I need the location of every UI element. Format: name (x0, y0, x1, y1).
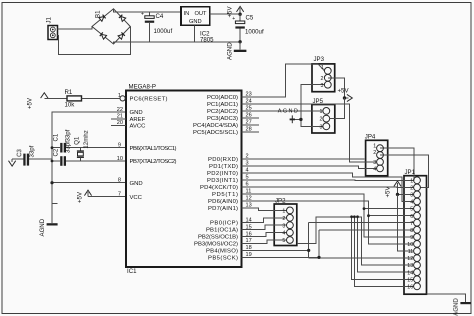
+5V supply arrow at C5 (227, 6, 244, 18)
svg-text:PC4(ADC4/SDA): PC4(ADC4/SDA) (193, 123, 238, 129)
svg-text:15: 15 (407, 277, 413, 283)
svg-text:Q1: Q1 (73, 136, 80, 145)
JP3 pins and label (314, 56, 332, 89)
svg-text:JP2: JP2 (275, 198, 286, 205)
svg-text:13: 13 (407, 263, 413, 269)
wire JP3 pin2 to +5V node (328, 78, 345, 98)
svg-text:2: 2 (373, 150, 376, 156)
wire step from JP2 right to JP1 pin14 (297, 217, 414, 265)
wire hang vertical to JP1 pin15 (352, 217, 414, 279)
svg-text:+5V: +5V (385, 186, 392, 198)
svg-text:GND: GND (189, 19, 202, 25)
junction dot rail xtal2 (51, 160, 54, 163)
svg-text:3: 3 (246, 161, 249, 167)
wire PC2 pin25 to JP5 pin1 (252, 110, 323, 112)
wire 7805 OUT to +5V / C5 (210, 13, 240, 15)
svg-text:PD2(INT0): PD2(INT0) (207, 171, 238, 177)
wire VCC pin7 (88, 196, 126, 198)
svg-text:7805: 7805 (200, 37, 214, 44)
wire PD0 pin2 to JP4 (252, 158, 364, 160)
svg-text:MEGA8-P: MEGA8-P (129, 84, 156, 91)
svg-text:AGND: AGND (453, 298, 460, 316)
svg-text:1: 1 (373, 143, 376, 149)
svg-text:33pf: 33pf (29, 145, 36, 157)
junction dot branch9 (363, 207, 366, 210)
svg-text:C2: C2 (53, 148, 60, 156)
svg-text:10k: 10k (65, 102, 76, 109)
svg-text:6: 6 (246, 182, 249, 188)
+5V supply arrow right at JP3 JP5 (338, 88, 353, 102)
diode D-botright (118, 32, 125, 39)
wire PD1 pin3 to JP4 pin4 (252, 166, 376, 169)
wire hang vertical to JP1 pin14 (358, 217, 414, 272)
wire PD7 pin13 to JP2 pin1 (252, 208, 287, 211)
svg-text:14: 14 (246, 217, 252, 223)
svg-text:AVCC: AVCC (130, 123, 147, 129)
svg-text:+: + (232, 16, 235, 22)
wire PC0 pin23 to JP3 pin1 (252, 64, 318, 97)
junction dot hang14 (356, 215, 359, 218)
wire cap C2 left to rail (52, 147, 60, 149)
wire 7805 GND down to rail (194, 25, 196, 42)
svg-text:PC5(ADC5/SCL): PC5(ADC5/SCL) (193, 130, 238, 136)
wire branch to JP1 pin10 (369, 216, 414, 244)
connector JP4 box (366, 140, 388, 176)
svg-text:1: 1 (118, 93, 121, 99)
wire J1 pin2 loop to bridge right corner (58, 27, 131, 55)
capacitor C1 (53, 129, 72, 165)
svg-text:PB2(SS/OC1B): PB2(SS/OC1B) (198, 235, 238, 241)
capacitor C4 (141, 12, 172, 42)
capacitor C5 (232, 14, 264, 42)
JP4 pins and label (365, 134, 384, 173)
AGND ground at C5 (227, 42, 247, 60)
+5V supply arrow at JP1 (385, 181, 402, 198)
svg-text:2: 2 (282, 216, 285, 222)
AGND ground bottom right (453, 298, 471, 316)
svg-text:PB0(ICP): PB0(ICP) (210, 221, 238, 227)
svg-text:PD7(AIN1): PD7(AIN1) (208, 206, 238, 212)
IC1 MEGA8-P microcontroller (126, 84, 242, 276)
svg-text:19: 19 (246, 252, 252, 258)
capacitor C2 (53, 141, 72, 157)
svg-text:2: 2 (410, 186, 413, 192)
+5V supply arrow at R1 (27, 93, 49, 109)
svg-text:PD0(RXD): PD0(RXD) (208, 157, 238, 163)
AGND arrow at C3 (9, 159, 16, 166)
wire AGND node to JP5 pin3 (301, 119, 323, 126)
wire PB1 pin15 to JP2 pin3 (252, 225, 287, 229)
connector JP5 box (312, 105, 335, 134)
pin 21 AREF stub (111, 118, 126, 120)
wire PB2 pin16 to JP2 pin4 (252, 233, 287, 237)
svg-text:PC3(ADC3): PC3(ADC3) (207, 116, 238, 122)
svg-text:C1: C1 (53, 133, 60, 141)
svg-text:2: 2 (321, 76, 324, 82)
svg-text:12mhz: 12mhz (83, 130, 90, 148)
voltage regulator IC2 7805 (181, 7, 214, 44)
svg-text:JP4: JP4 (365, 134, 376, 141)
capacitor C3 (16, 145, 35, 165)
svg-text:4: 4 (246, 168, 249, 174)
svg-text:AGND: AGND (227, 42, 234, 60)
wire pin22 GND left and down rail (52, 112, 126, 223)
IC1 left pin labels (130, 97, 177, 201)
wire bridge top (+) to 7805 IN (114, 9, 182, 12)
junction dot hang1 (350, 215, 353, 218)
svg-text:IC1: IC1 (127, 268, 137, 275)
svg-text:VCC: VCC (130, 195, 143, 201)
pin 1 reset circle (120, 96, 125, 101)
svg-text:PD1(TXD): PD1(TXD) (209, 164, 238, 170)
wire PB4 pin18 riser (252, 249, 309, 251)
svg-text:J1: J1 (46, 16, 53, 23)
svg-text:PB3(MOSI/OC2): PB3(MOSI/OC2) (194, 242, 238, 248)
svg-text:+: + (141, 12, 144, 18)
svg-text:20: 20 (117, 120, 123, 126)
svg-text:12: 12 (246, 196, 252, 202)
svg-text:1000uf: 1000uf (154, 28, 173, 35)
svg-text:PB7(XTAL2/TOSC2): PB7(XTAL2/TOSC2) (130, 159, 177, 165)
+5V supply arrow at VCC pin7 (77, 190, 92, 203)
connector JP3 box (312, 64, 335, 92)
svg-text:+5V: +5V (77, 191, 84, 203)
wire to JP1 pin8 (319, 229, 414, 231)
wire stub on GND rail (51, 202, 57, 204)
svg-text:21: 21 (117, 114, 123, 120)
junction dot pin8 rail (50, 181, 53, 184)
svg-text:PD6(AIN0): PD6(AIN0) (208, 199, 238, 205)
JP1 pins and label (405, 169, 421, 290)
svg-text:PD4(XCK/T0): PD4(XCK/T0) (200, 185, 238, 191)
wire PB5 pin19 riser (252, 256, 319, 258)
svg-text:AGND: AGND (278, 109, 298, 115)
wire PB3 pin17 to JP2 pin5 (252, 240, 287, 243)
svg-text:B1: B1 (95, 10, 102, 18)
svg-text:1: 1 (320, 109, 323, 115)
svg-text:3: 3 (320, 124, 323, 130)
svg-text:4: 4 (410, 200, 413, 206)
wire XTAL1 line pin9 (66, 147, 126, 149)
JP5 pins and label (313, 98, 330, 130)
svg-text:PC0(ADC0): PC0(ADC0) (207, 95, 238, 101)
junction dot C5 top (238, 13, 241, 16)
junction dot PB5 (317, 256, 320, 259)
svg-text:JP1: JP1 (405, 169, 416, 176)
IC1 right pin stubs (242, 97, 260, 258)
svg-text:PD5(T1): PD5(T1) (212, 192, 238, 198)
svg-text:PB1(OC1A): PB1(OC1A) (206, 228, 238, 234)
svg-text:26: 26 (246, 113, 252, 119)
svg-text:5: 5 (246, 175, 249, 181)
svg-text:7: 7 (410, 221, 413, 227)
svg-text:1: 1 (321, 65, 324, 71)
diode D-topright (119, 15, 126, 22)
svg-text:PD3(INT1): PD3(INT1) (207, 178, 238, 184)
svg-text:+5V: +5V (338, 88, 350, 95)
svg-text:10: 10 (117, 156, 123, 162)
svg-text:1000uf: 1000uf (245, 29, 264, 36)
junction dot AGND JP3 JP5 (299, 118, 302, 121)
junction dot rail xtal1 (51, 146, 54, 149)
resistor R1 (65, 89, 82, 108)
svg-text:10: 10 (407, 242, 413, 248)
svg-text:25: 25 (246, 106, 252, 112)
junction dot branch10 (367, 214, 370, 217)
connector JP1 box (404, 176, 427, 295)
svg-text:14: 14 (407, 270, 413, 276)
svg-text:33pf: 33pf (65, 129, 72, 141)
bridge rectifier B1 (92, 9, 130, 44)
svg-text:PC2(ADC2): PC2(ADC2) (207, 109, 238, 115)
svg-text:PC1(ADC1): PC1(ADC1) (207, 102, 238, 108)
wire C3 to GND rail (29, 158, 52, 160)
wire +5V node down to JP5 pin2 (330, 98, 345, 119)
wire bottom GND rail bridge to C5 (114, 42, 241, 44)
svg-text:C5: C5 (246, 15, 254, 22)
wire PD4 pin6 to JP1 pin2 (252, 186, 414, 189)
connector JP2 box (274, 204, 297, 246)
svg-text:16: 16 (246, 231, 252, 237)
svg-text:28: 28 (246, 127, 252, 133)
wire JP1 bottom to AGND (427, 294, 466, 302)
svg-text:16: 16 (407, 284, 413, 290)
wire JP4 pin2 to JP1 pin2 from right (380, 155, 429, 187)
svg-text:JP5: JP5 (313, 98, 324, 105)
svg-text:+5V: +5V (27, 97, 34, 109)
svg-text:5: 5 (282, 238, 285, 244)
svg-text:JP3: JP3 (314, 56, 325, 63)
svg-text:4: 4 (373, 167, 376, 173)
svg-text:C4: C4 (156, 13, 164, 20)
svg-text:12: 12 (407, 256, 413, 262)
svg-text:11: 11 (408, 249, 414, 255)
junction dot +5V JP3 JP5 (343, 96, 346, 99)
svg-text:27: 27 (246, 120, 252, 126)
wire J1 pin1 to bridge left corner (58, 27, 93, 30)
wire PC1 pin24 to JP4 pin3 (252, 104, 376, 162)
svg-text:AGND: AGND (39, 218, 46, 236)
svg-text:9: 9 (118, 143, 121, 149)
diode D-topleft (99, 15, 106, 22)
svg-text:PB5(SCK): PB5(SCK) (208, 256, 238, 262)
IC1 right pin labels (193, 95, 238, 262)
svg-text:4: 4 (282, 231, 285, 237)
wire branch to JP1 pin9 (364, 209, 414, 237)
JP2 pins and label (275, 198, 293, 245)
svg-text:17: 17 (246, 238, 252, 244)
pin 20 AVCC stub (111, 124, 126, 126)
svg-text:C3: C3 (16, 149, 23, 157)
svg-text:23: 23 (246, 92, 252, 98)
svg-text:2: 2 (320, 117, 323, 123)
diode D-botleft (100, 32, 107, 39)
wire JP3 pin3 to AGND node (301, 85, 325, 120)
svg-text:PB6(XTAL1/TOSC1): PB6(XTAL1/TOSC1) (130, 146, 177, 152)
wire PD5 pin11 to JP1 pin5 (252, 194, 414, 209)
svg-text:33pf: 33pf (65, 141, 72, 153)
junction dot PB4 (307, 249, 310, 252)
wire cap C1 left to rail (52, 160, 60, 162)
svg-text:3: 3 (321, 83, 324, 89)
AGND ground bottom left (39, 218, 58, 236)
wire to JP1 pin7 (309, 222, 414, 224)
svg-text:OUT: OUT (195, 11, 208, 17)
svg-text:PB4(MISO): PB4(MISO) (206, 249, 238, 255)
svg-text:22: 22 (117, 107, 123, 113)
IC1 left pin numbers (117, 93, 123, 198)
wire pin8 GND to rail (52, 182, 126, 184)
svg-text:11: 11 (246, 189, 252, 195)
crystal Q1 12mhz (73, 130, 90, 161)
IC1 right pin numbers (246, 92, 252, 259)
wire PB0 pin14 to JP2 pin2 (252, 218, 287, 223)
wire R1 to pin 1 reset (82, 97, 120, 99)
svg-text:9: 9 (410, 235, 413, 241)
svg-text:1: 1 (410, 178, 413, 184)
svg-text:AREF: AREF (130, 117, 146, 123)
svg-text:7: 7 (118, 192, 121, 198)
svg-text:18: 18 (246, 245, 252, 251)
svg-text:24: 24 (246, 99, 252, 105)
svg-text:3: 3 (410, 193, 413, 199)
connector J1 (46, 16, 58, 39)
svg-text:13: 13 (246, 203, 252, 209)
wire hang vertical to JP1 pin16 (354, 217, 413, 286)
wire +5V to R1 (44, 97, 67, 99)
wire C3 left (12, 158, 23, 160)
wire JP4 pin1 to JP1 pin1 (380, 148, 414, 180)
wire to JP1 pin12 (309, 257, 414, 259)
wire PD3 pin5 to JP1 pin1 (252, 179, 414, 182)
svg-text:2: 2 (246, 154, 249, 160)
svg-text:GND: GND (130, 181, 143, 187)
svg-text:8: 8 (410, 228, 413, 234)
junction dot hang2 (353, 215, 356, 218)
svg-text:IN: IN (184, 11, 190, 17)
svg-text:6: 6 (410, 214, 413, 220)
wire PD6 pin12 to JP1 pin6 (252, 201, 414, 216)
svg-text:3: 3 (282, 223, 285, 229)
wire XTAL2 line pin10 (66, 160, 126, 162)
svg-text:PC6(RESET): PC6(RESET) (130, 97, 168, 103)
svg-text:R1: R1 (65, 89, 73, 96)
junction dot rail at C5 (238, 40, 241, 43)
svg-text:5: 5 (410, 207, 413, 213)
svg-text:15: 15 (246, 224, 252, 230)
svg-text:3: 3 (373, 160, 376, 166)
svg-text:1: 1 (282, 209, 285, 215)
svg-text:8: 8 (118, 178, 121, 184)
AGND symbol near JP5 (278, 109, 301, 124)
junction dot +5V JP1 (396, 193, 399, 196)
wire +5V to JP1 pin3 (398, 193, 414, 195)
wire +5V down to JP1 pin11 (398, 194, 414, 251)
wire PD2 pin4 under JP4 to JP1 pin4 (252, 173, 414, 202)
svg-text:GND: GND (130, 110, 143, 116)
